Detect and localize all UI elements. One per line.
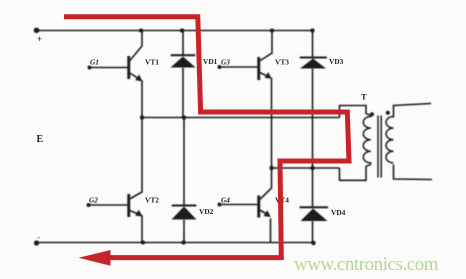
- wire left midpoint horizontal: [142, 117, 340, 119]
- svg-text:www.cntronics.com: www.cntronics.com: [294, 254, 439, 275]
- diode VD4: [300, 206, 329, 221]
- wire right midpoint horizontal: [272, 167, 340, 169]
- wire VD4 leg top: [312, 168, 314, 208]
- wire VD3 leg bottom: [312, 69, 314, 169]
- svg-text:VD4: VD4: [331, 208, 346, 217]
- svg-text:VD3: VD3: [329, 57, 344, 66]
- wire secondary top lead: [394, 104, 432, 118]
- svg-text:VT1: VT1: [145, 58, 159, 67]
- svg-text:-: -: [37, 232, 40, 242]
- wire VT4 emitter to bottom rail: [269, 219, 272, 243]
- transformer T: [363, 114, 393, 178]
- diode VD2: [172, 205, 197, 220]
- wire VD2 leg top: [183, 118, 185, 206]
- diode VD3: [300, 57, 327, 69]
- wire VD1 leg top: [182, 31, 184, 56]
- svg-text:VD2: VD2: [199, 207, 214, 216]
- svg-text:G3: G3: [221, 58, 230, 67]
- node - terminal bottom-left: [34, 240, 39, 245]
- transistor Q VT4: [218, 196, 271, 218]
- svg-text:+: +: [37, 34, 42, 44]
- wire VD2 leg bottom: [183, 220, 185, 243]
- wire VT1 emitter down to midpoint: [141, 81, 144, 118]
- wire secondary bottom lead: [394, 165, 433, 180]
- transformer polarity dot primary: [370, 112, 374, 116]
- wire VT4 collector to right midpoint: [260, 168, 272, 200]
- node VD4 on bottom rail: [311, 241, 315, 245]
- node left midpoint at VT leg: [140, 115, 144, 119]
- svg-text:T: T: [361, 92, 367, 102]
- node + terminal top-left: [34, 28, 40, 34]
- wire VT2 emitter to bottom rail: [141, 216, 144, 243]
- wire red current path: [64, 17, 349, 258]
- node left midpoint at VD leg: [182, 115, 186, 119]
- diode VD1: [171, 54, 196, 67]
- wire red current arrowhead: [79, 250, 111, 266]
- node VD2 on bottom rail: [181, 240, 185, 244]
- wire VD4 leg bottom: [312, 221, 314, 243]
- node VD3 on top rail: [310, 28, 314, 32]
- wire VD3 leg top: [312, 31, 314, 58]
- node VT2 emitter on bottom rail: [141, 241, 145, 245]
- node right midpoint at VD leg: [310, 166, 314, 170]
- node VD1 on top rail: [180, 28, 184, 32]
- wire VT3 emitter down to right midpoint: [270, 79, 273, 169]
- wire top rail: [37, 30, 314, 32]
- wire VT3 collector to top rail: [260, 31, 273, 62]
- wire transformer primary bottom lead: [340, 166, 367, 180]
- node right midpoint at VT leg: [269, 166, 273, 170]
- wire transformer primary top lead: [340, 106, 367, 118]
- svg-text:VT2: VT2: [145, 196, 159, 205]
- wire VD1 leg bottom: [182, 68, 184, 118]
- svg-text:VT3: VT3: [275, 58, 289, 67]
- svg-text:VD1: VD1: [203, 57, 218, 66]
- svg-text:G1: G1: [90, 58, 99, 67]
- svg-text:E: E: [37, 134, 44, 145]
- node VT1 collector on top rail: [139, 29, 143, 33]
- wire VT1 collector to top rail: [130, 31, 143, 62]
- transistor Q VT2: [87, 194, 143, 217]
- node VT3 collector on top rail: [270, 29, 274, 33]
- wire bottom rail: [37, 242, 315, 244]
- transistor Q VT3: [218, 57, 272, 80]
- svg-text:G2: G2: [89, 196, 98, 205]
- svg-text:G4: G4: [221, 196, 230, 205]
- wire VT2 collector to midpoint: [130, 118, 143, 200]
- transistor Q VT1: [88, 56, 143, 82]
- transformer polarity dot secondary: [386, 111, 390, 115]
